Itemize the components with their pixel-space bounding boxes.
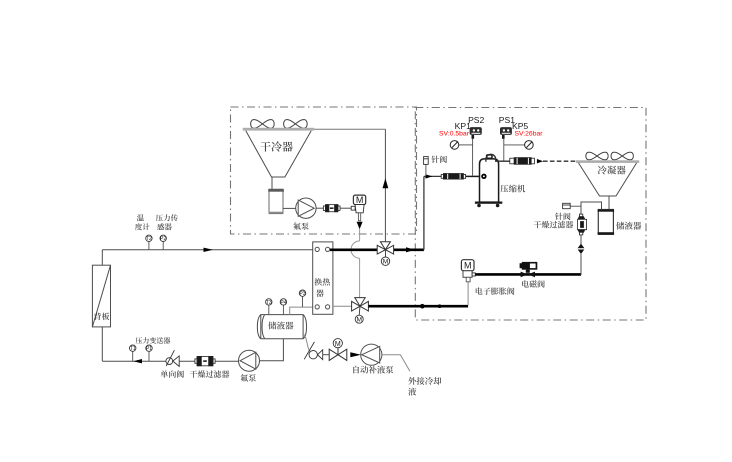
wire: dry cooler top to down-leg: [314, 128, 385, 130]
fill pump 自动补液泵: [361, 344, 382, 365]
junction dot 1 on lower pipe: [420, 304, 425, 309]
thick pipe: EEV to solenoid to filter riser: [475, 273, 581, 276]
small vessel under dry cooler: [268, 189, 284, 213]
upper 3-way valve: [377, 242, 393, 254]
flow arrow on discharge: [537, 159, 543, 163]
flow arrow right on supply line: [204, 248, 214, 252]
horizontal receiver 储液器: [257, 315, 306, 339]
label 换热器: [315, 278, 330, 286]
vertical drier filter: [578, 214, 587, 235]
svg-text:M: M: [464, 261, 472, 271]
M circle of fill valve: [333, 339, 342, 348]
sensor P4: [282, 305, 284, 315]
label 储液器 (vertical receiver): [616, 222, 641, 230]
svg-text:P3: P3: [299, 291, 305, 297]
wire: condenser outlet to receiver: [608, 196, 610, 210]
discharge pipe loop: [486, 154, 510, 162]
label 单向阀: [161, 370, 184, 377]
M actuator circle of upper 3-way valve: [384, 250, 386, 257]
vertical receiver 储液器: [598, 210, 615, 235]
flow arrow down from M-valve: [357, 222, 363, 229]
wire: down-leg to upper 3-way valve: [384, 129, 386, 241]
fan 1 on dry cooler: [251, 120, 275, 129]
wire: pump to receiver bottom: [260, 339, 284, 361]
wire: sight glass down to solenoid pipe: [580, 254, 582, 275]
PS2/KP1 pressure switch: [470, 127, 482, 139]
svg-text:M: M: [335, 341, 341, 348]
svg-text:M: M: [356, 317, 362, 324]
svg-text:M: M: [383, 259, 389, 266]
inline filter (box1): [323, 205, 340, 212]
drier filter 干燥过滤器 (bottom line): [195, 356, 215, 365]
wire bridge (crossover arc) over thick pipe: [351, 241, 360, 258]
solenoid valve 电磁阀: [520, 262, 538, 277]
svg-text:P1: P1: [146, 346, 152, 352]
electronic expansion valve 电子膨胀阀: [461, 260, 475, 282]
label 干冷器 (dry cooler): [260, 141, 292, 151]
label 氟泵 (coolant pump): [241, 374, 256, 381]
label 干燥过滤器 (bottom): [190, 370, 230, 377]
wire: bridge to lower 3-way valve top: [359, 258, 361, 297]
junction dot 2 on lower pipe: [438, 304, 442, 308]
suction riser: corner up to compressor suction: [423, 176, 425, 249]
sensor T2: [148, 242, 150, 250]
wire: pump to inline filter: [316, 207, 326, 209]
thick pipe: lower 3-way valve to EEV riser: [369, 305, 469, 308]
dry cooler funnel body: [246, 131, 311, 177]
motorized valve M (box1 outlet, angle type): [351, 195, 365, 221]
label 电磁阀: [522, 280, 545, 287]
condenser top bar: [576, 160, 639, 163]
return line backplate to pump: [102, 360, 238, 362]
label 电子膨胀阀: [476, 287, 515, 294]
label 冷凝器: [598, 165, 626, 174]
flow arrow left on return line: [133, 359, 142, 363]
wire: check valve to fill M-valve: [323, 354, 330, 356]
svg-text:SV:0.5bar: SV:0.5bar: [439, 131, 470, 138]
flow arrow up on down-leg: [383, 178, 389, 188]
svg-text:M: M: [356, 195, 364, 205]
wire: fill pump to external coolant: [382, 355, 410, 372]
label 压力传感器 (pressure sensor): [156, 214, 178, 221]
label 压力变送器 (pressure transmitter): [136, 337, 171, 344]
label 针阀 (receiver side): [555, 213, 570, 220]
thick pipe: HX top to upper 3-way valve: [330, 249, 377, 252]
PS1 pressure switch stem: [503, 139, 505, 161]
wire: vessel to pump: [283, 207, 296, 209]
backplate 背板 (cold plate): [92, 265, 110, 327]
PS2 pressure switch stem: [472, 139, 474, 176]
wire: heat exchanger to receiver: [290, 307, 313, 315]
check valve 单向阀: [166, 350, 179, 366]
label 外接冷却液 (external coolant): [408, 377, 441, 385]
wire: backplate bottom to return line: [101, 327, 103, 361]
wire: receiver to fill check valve: [304, 335, 310, 352]
sensor T3: [268, 305, 270, 315]
fan 2 on condenser: [611, 152, 633, 160]
wire: muffler to compressor: [466, 175, 480, 177]
needle valve 针阀 (suction service): [425, 164, 427, 176]
lower 3-way valve: [333, 305, 352, 307]
wire: supply line to heat exchanger: [102, 249, 312, 251]
wire: dry cooler outlet to vessel: [271, 177, 273, 189]
condenser funnel body 冷凝器: [579, 163, 637, 196]
svg-text:T3: T3: [266, 300, 272, 306]
label 干燥过滤器 (receiver side): [534, 221, 574, 228]
label 背板: [94, 313, 109, 320]
compressor 压缩机: [480, 155, 499, 202]
label 针阀 (left): [431, 156, 446, 163]
dry cooler top bar: [243, 128, 315, 131]
svg-text:P2: P2: [160, 236, 166, 242]
sensor P3: [302, 296, 304, 307]
fan 1 on condenser: [586, 152, 608, 160]
dry-cooler unit enclosure (dash-dot box): [231, 107, 417, 234]
label 压缩机: [500, 185, 525, 193]
sensor P1: [148, 351, 150, 361]
wire: PS1 stem to gauge2: [504, 144, 525, 146]
dashed pipe: discharge to condenser: [543, 160, 576, 162]
compressor unit enclosure (dash-dot box): [415, 108, 646, 321]
svg-text:T1: T1: [130, 346, 136, 352]
pump 氟泵 (coolant pump): [239, 350, 260, 371]
sensor P2: [162, 242, 164, 250]
sight glass: [577, 244, 585, 254]
svg-text:SV:26bar: SV:26bar: [514, 131, 543, 138]
label 储液器 (horizontal receiver): [268, 321, 293, 329]
gauge 1 (low pressure): [450, 141, 459, 150]
svg-text:KP5: KP5: [512, 121, 528, 131]
wire: M-valve down to bridge: [359, 229, 361, 241]
compressor suction stub: [481, 174, 486, 179]
sensor T1: [132, 351, 134, 361]
thick pipe: upper 3-way valve to suction riser: [393, 249, 424, 252]
gauge 2 (high pressure): [525, 141, 534, 150]
svg-text:T2: T2: [146, 236, 152, 242]
label 自动补液泵: [353, 366, 393, 374]
PS1/KP5 pressure switch: [500, 127, 512, 139]
suction pipe: riser corner to muffler: [424, 175, 443, 177]
svg-text:KP1: KP1: [455, 121, 471, 131]
svg-text:P4: P4: [280, 300, 286, 306]
plate heat exchanger 换热器: [313, 242, 333, 314]
flow arrow on pipe: [406, 247, 415, 252]
discharge muffler: [510, 158, 535, 165]
label 氟泵 (box1): [293, 222, 308, 229]
fill check valve: [304, 342, 323, 360]
suction muffler: [441, 174, 465, 180]
label 温度计 (thermometer): [137, 214, 144, 221]
fan 2 on dry cooler: [284, 120, 308, 129]
flow arrow into fill pump: [350, 352, 361, 357]
wire: backplate top to supply line: [101, 250, 103, 265]
needle valve 针阀 (receiver side): [570, 205, 581, 207]
wire: receiver top over to filter riser: [581, 202, 602, 214]
wire: filter to M-valve: [340, 207, 355, 209]
M actuator circle of lower 3-way valve: [358, 306, 361, 315]
flow arrow on suction pipe: [425, 174, 432, 178]
compressor base and feet: [475, 202, 502, 208]
wire: filter to sight glass: [580, 235, 582, 244]
pump 氟泵 (box1 fluorine pump): [296, 198, 316, 218]
fill M-valve (manual/motor valve): [329, 348, 347, 361]
wire: EEV down-leg: [467, 282, 469, 305]
wire: gauge1 to PS2 stem: [459, 144, 473, 146]
